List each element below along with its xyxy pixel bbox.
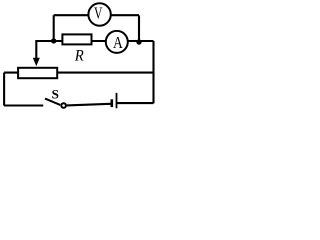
svg-text:S: S <box>52 87 59 102</box>
svg-text:V: V <box>94 3 102 22</box>
svg-text:A: A <box>113 33 123 52</box>
svg-text:R: R <box>74 48 84 65</box>
